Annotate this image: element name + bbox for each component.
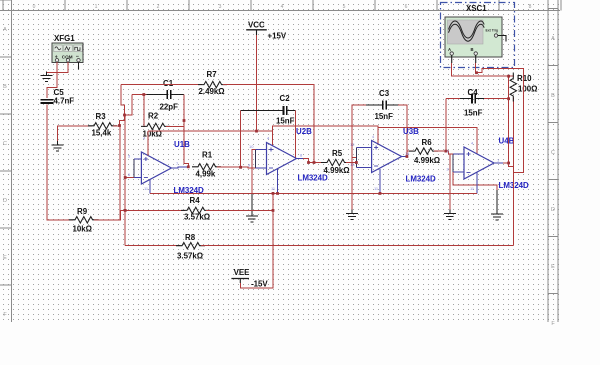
svg-text:E: E	[551, 264, 555, 270]
resistor R1	[192, 164, 221, 170]
svg-text:0: 0	[33, 4, 36, 10]
resistor R5	[321, 159, 350, 165]
svg-text:4.99kΩ: 4.99kΩ	[414, 156, 440, 165]
wire R1 to U2B input	[217, 167, 256, 168]
ground (U2B +)	[246, 212, 258, 222]
svg-text:B: B	[3, 84, 7, 90]
U2B V- pin	[277, 169, 279, 194]
svg-text:A: A	[551, 36, 555, 42]
svg-text:R1: R1	[202, 151, 213, 160]
feedback wire to U1B output	[184, 121, 188, 167]
resistor R6	[409, 148, 438, 154]
svg-text:100Ω: 100Ω	[518, 85, 538, 94]
wire XFG1 + to C5	[47, 67, 57, 99]
wire R5 to U3B input	[346, 162, 356, 164]
svg-text:B: B	[471, 47, 474, 52]
svg-text:10kΩ: 10kΩ	[73, 225, 93, 234]
vertical to R9/R4 and R8	[119, 126, 121, 220]
svg-text:U1B: U1B	[174, 140, 190, 149]
svg-text:4,99k: 4,99k	[196, 170, 216, 179]
ground (C3/U3B)	[346, 210, 358, 220]
U1B output stub	[171, 167, 188, 168]
junction dots	[118, 124, 121, 127]
svg-text:U4B: U4B	[499, 137, 515, 146]
op-amp U1B	[141, 152, 171, 184]
ground (XFG1 COM)	[41, 72, 53, 82]
svg-text:XSC1: XSC1	[466, 4, 487, 13]
op-amp U3B	[372, 141, 402, 173]
svg-text:4.99kΩ: 4.99kΩ	[324, 166, 350, 175]
svg-text:5: 5	[343, 4, 346, 10]
svg-text:15,4k: 15,4k	[92, 129, 112, 138]
svg-text:6: 6	[405, 4, 408, 10]
svg-text:10: 10	[249, 144, 254, 149]
VCC rail segment 3	[378, 126, 477, 154]
capacitor C3 + left line to ground	[383, 100, 386, 109]
svg-text:A: A	[448, 47, 451, 52]
resistor R8	[176, 243, 205, 249]
svg-text:3.57kΩ: 3.57kΩ	[177, 252, 203, 261]
svg-text:R8: R8	[185, 233, 196, 242]
U4B + ground line	[450, 153, 453, 155]
U4B output stub	[494, 162, 503, 164]
svg-text:VEE: VEE	[234, 268, 250, 277]
wire R7 to U2B output node	[223, 85, 314, 163]
U4B input bracket	[452, 154, 454, 172]
capacitor C5	[41, 100, 54, 103]
wire C5 to R9	[47, 105, 73, 220]
wire R6 to U4B + C4 left	[434, 150, 446, 152]
svg-text:LM324D: LM324D	[406, 175, 437, 184]
instrument XSC1 (oscilloscope)	[445, 4, 506, 63]
capacitor C1	[167, 90, 170, 99]
svg-text:U2B: U2B	[296, 127, 312, 136]
resistor R3	[88, 123, 117, 129]
wire to R2 left	[144, 95, 145, 127]
svg-text:22pF: 22pF	[160, 103, 179, 112]
svg-text:C2: C2	[280, 94, 291, 103]
svg-text:3: 3	[219, 4, 222, 10]
svg-text:2.49kΩ: 2.49kΩ	[199, 87, 225, 96]
selection box around XSC1	[441, 3, 515, 68]
wire to U1B inverting input	[125, 177, 134, 179]
svg-text:15nF: 15nF	[464, 109, 483, 118]
svg-text:VCC: VCC	[248, 21, 265, 30]
VEE -15V supply	[231, 268, 268, 289]
capacitor C2 + feedback loop	[284, 106, 287, 115]
ground (U4B +)	[444, 210, 456, 220]
svg-text:D: D	[551, 207, 555, 213]
svg-text:D: D	[3, 198, 7, 204]
VEE riser	[240, 193, 273, 288]
svg-text:3.57kΩ: 3.57kΩ	[184, 213, 210, 222]
svg-text:R9: R9	[77, 207, 88, 216]
U3B V- pin	[379, 169, 381, 193]
resistor R7	[198, 81, 227, 87]
svg-text:14: 14	[405, 151, 410, 156]
wire R3 to node A	[113, 125, 120, 127]
svg-text:R6: R6	[422, 138, 433, 147]
svg-text:A: A	[3, 27, 7, 33]
node chain / staircase wires	[120, 115, 125, 126]
svg-text:C4: C4	[468, 88, 479, 97]
VEE rail	[150, 192, 477, 194]
wire C1 left line	[132, 94, 147, 96]
R7 top line	[121, 84, 202, 86]
U1B V- pin	[149, 180, 151, 194]
XSC1 A probe wire	[452, 63, 514, 77]
ground (R3)	[52, 141, 64, 151]
U4B V- pin	[476, 172, 478, 193]
U1B input bracket	[133, 159, 135, 178]
wire R3 left + ground	[58, 126, 93, 141]
VCC +15V supply	[246, 21, 287, 41]
op-amp U2B	[267, 143, 297, 175]
svg-text:R7: R7	[207, 70, 218, 79]
resistor R10	[510, 73, 516, 102]
svg-text:15nF: 15nF	[375, 112, 394, 121]
svg-text:Ext Trig: Ext Trig	[486, 29, 498, 33]
U2B input bracket	[255, 150, 257, 169]
svg-text:4: 4	[281, 4, 284, 10]
svg-text:13: 13	[350, 162, 355, 167]
resistor R2	[141, 123, 170, 129]
svg-text:2: 2	[157, 4, 160, 10]
U2B + input ground line	[252, 150, 256, 194]
svg-text:C3: C3	[379, 89, 390, 98]
resistor R9	[69, 217, 98, 223]
svg-text:15nF: 15nF	[276, 117, 295, 126]
output feedback vertical (R10 bottom / B probe)	[512, 98, 514, 246]
wire C1 right down	[171, 94, 184, 96]
U4B - loop to ground	[453, 172, 497, 190]
capacitor C4	[472, 94, 475, 103]
svg-text:R2: R2	[148, 112, 159, 121]
VCC stem	[256, 35, 258, 131]
wire R2 right up to node	[166, 121, 184, 127]
resistor R4	[181, 207, 210, 213]
svg-text:R5: R5	[332, 149, 343, 158]
svg-text:4.7nF: 4.7nF	[54, 97, 75, 106]
svg-text:R3: R3	[96, 112, 107, 121]
svg-text:-15V: -15V	[251, 280, 268, 289]
svg-text:+15V: +15V	[268, 32, 287, 41]
wire R9 to node	[94, 210, 125, 219]
U2B output stub	[297, 158, 304, 160]
ground (U4B -)	[491, 210, 503, 220]
XSC1 B probe wire	[476, 63, 524, 173]
R4 line	[125, 209, 185, 211]
svg-text:12: 12	[350, 142, 355, 147]
svg-text:8: 8	[529, 4, 532, 10]
output node vertical	[508, 76, 510, 163]
svg-text:1: 1	[95, 4, 98, 10]
svg-text:R10: R10	[517, 74, 532, 83]
VCC rail segment 2	[272, 126, 378, 145]
svg-text:XFG1: XFG1	[54, 34, 75, 43]
svg-text:C: C	[3, 141, 7, 147]
U3B output stub	[402, 156, 407, 158]
instrument XFG1 (function generator)	[52, 34, 83, 70]
svg-text:C1: C1	[163, 79, 174, 88]
op-amp U4B	[464, 147, 494, 179]
svg-text:U3B: U3B	[403, 127, 419, 136]
svg-text:E: E	[3, 255, 7, 261]
svg-text:C: C	[551, 150, 555, 156]
wire C3 right down	[386, 104, 398, 106]
U3B input bracket	[355, 147, 357, 167]
svg-text:B: B	[551, 93, 555, 99]
U1B V+ pin	[147, 131, 149, 155]
VCC rail segment 1	[148, 131, 272, 146]
svg-text:R4: R4	[190, 196, 201, 205]
R8 line	[125, 245, 180, 247]
wire XFG1 COM to ground	[47, 67, 69, 76]
